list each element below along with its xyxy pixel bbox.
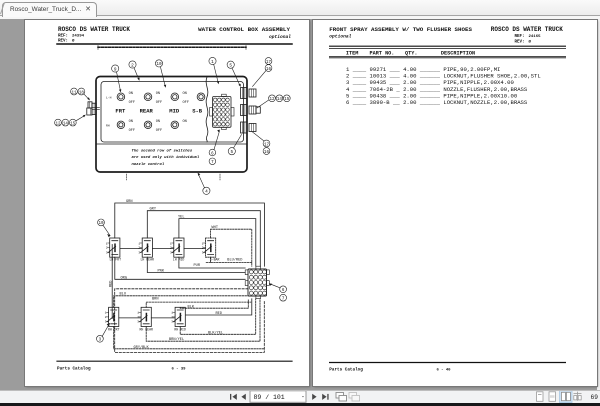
svg-text:14: 14 [63, 122, 69, 126]
switch S1 LH FRT [106, 238, 120, 257]
ON OFF labels row1 [129, 92, 189, 105]
svg-text:REV:: REV: [58, 39, 68, 43]
header underline rules [329, 56, 566, 58]
svg-text:REF:: REF: [58, 34, 68, 38]
switch S5 RH FRT [105, 307, 119, 326]
svg-text:Ø: Ø [72, 38, 75, 43]
svg-text:ON: ON [156, 120, 160, 124]
footer rule [329, 362, 566, 364]
callout 4 [198, 173, 210, 195]
svg-text:The second row of switches: The second row of switches [132, 149, 193, 154]
svg-text:BLU/RED: BLU/RED [227, 258, 242, 263]
next page button [312, 394, 316, 400]
svg-text:10: 10 [156, 62, 162, 67]
svg-text:6 - 39: 6 - 39 [172, 368, 187, 372]
two page layout icon selected [560, 391, 573, 403]
svg-text:10: 10 [98, 222, 104, 226]
right page [313, 20, 597, 386]
svg-text:14: 14 [277, 98, 283, 102]
break squiggle [206, 77, 208, 142]
panel labels FRT REAR MID S-B [115, 108, 202, 115]
svg-text:PNK: PNK [158, 269, 165, 273]
svg-text:89 / 101: 89 / 101 [254, 394, 285, 401]
callouts 11 18 left [71, 88, 90, 100]
next view icon (disabled) [349, 393, 360, 402]
svg-text:16: 16 [266, 68, 272, 72]
svg-text:WATER CONTROL BOX ASSEMBLY: WATER CONTROL BOX ASSEMBLY [198, 26, 290, 33]
wire ORG [115, 257, 245, 279]
callout 3 schematic [97, 324, 110, 343]
box separator line [97, 143, 246, 145]
svg-text:12: 12 [269, 98, 275, 102]
pdf viewer tab bar [0, 0, 600, 16]
svg-text:FRONT SPRAY ASSEMBLY W/ TWO FL: FRONT SPRAY ASSEMBLY W/ TWO FLUSHER SHOE… [329, 26, 472, 33]
knob row2 MID [171, 121, 178, 128]
wire GRN [115, 203, 265, 266]
svg-text:REV:: REV: [515, 40, 525, 44]
dark bottom strip [0, 403, 600, 406]
callouts 17 16 top right [253, 58, 272, 87]
table column headers [346, 51, 475, 57]
control box outer enclosure [96, 77, 247, 173]
page number box [250, 391, 306, 403]
svg-text:1: 1 [211, 60, 214, 65]
svg-text:OFF: OFF [129, 129, 135, 133]
knob REAR [144, 93, 152, 101]
callout 10 [155, 60, 166, 88]
svg-text:OFF: OFF [156, 129, 162, 133]
wire BLK dashed [180, 299, 248, 308]
svg-text:GRY/BLK: GRY/BLK [134, 345, 150, 350]
wire BRN dashed [146, 302, 251, 307]
svg-text:RH: RH [106, 124, 110, 127]
svg-text:5: 5 [229, 64, 232, 69]
callout 5 bottom [228, 135, 241, 156]
knob MID [171, 93, 179, 101]
knob row2 FRT [117, 121, 124, 128]
callout 9 [112, 65, 122, 93]
wire RED vertical left [111, 245, 113, 319]
svg-text:S-BAR: S-BAR [210, 258, 220, 262]
callout 7 in box [209, 158, 216, 165]
svg-text:QTY.: QTY. [405, 51, 417, 57]
wire BRN/YEL dashed [146, 299, 260, 341]
svg-text:GRY: GRY [150, 208, 157, 212]
svg-text:17: 17 [264, 143, 270, 147]
svg-text:optional: optional [269, 34, 291, 40]
callouts 12 14 15 right [257, 95, 290, 108]
svg-text:15: 15 [70, 122, 76, 126]
svg-text:OFF: OFF [183, 101, 189, 105]
svg-text:1: 1 [202, 242, 204, 245]
svg-text:BLK/YEL: BLK/YEL [208, 330, 223, 335]
single page layout icon [537, 392, 544, 402]
knob S-B hidden [197, 93, 205, 101]
wire BLU dashed [114, 296, 248, 308]
svg-text:ON: ON [156, 92, 160, 96]
connector P1 pins [249, 270, 266, 295]
wire between bottom switches [119, 317, 141, 319]
callouts 17 16 bottom right [253, 132, 270, 155]
wire YEL [179, 219, 256, 267]
footer rule [57, 360, 292, 362]
svg-text:OFF: OFF [129, 101, 135, 105]
gland right middle [241, 105, 261, 116]
svg-text:ROSCO DS WATER TRUCK: ROSCO DS WATER TRUCK [58, 26, 130, 33]
callout 6 schematic [269, 284, 287, 294]
svg-text:PART NO.: PART NO. [370, 51, 395, 57]
two page continuous icon [574, 392, 582, 401]
svg-text:FRT: FRT [115, 108, 126, 115]
svg-text:Ø: Ø [529, 39, 532, 44]
callout 5 top [227, 61, 241, 87]
left page [25, 20, 309, 386]
wire BLK/YEL dashed [180, 299, 256, 335]
wire WHT dashed [211, 229, 252, 266]
svg-text:ON: ON [183, 92, 187, 96]
wire PNK [147, 257, 245, 272]
svg-text:16: 16 [264, 151, 270, 155]
svg-text:4: 4 [205, 190, 208, 195]
svg-text:-: - [301, 394, 305, 401]
knob row2 REAR [144, 121, 151, 128]
svg-text:nozzle control: nozzle control [132, 162, 165, 167]
page header text [329, 26, 563, 44]
dash panel cut line [98, 46, 246, 48]
svg-text:are used only with individual: are used only with individual [132, 155, 200, 160]
svg-text:LH FRT: LH FRT [110, 258, 122, 262]
svg-text:BRN: BRN [152, 297, 158, 301]
page header text [58, 26, 291, 43]
svg-text:3: 3 [202, 251, 204, 254]
wire PUR [179, 257, 245, 268]
last page button [322, 394, 328, 400]
status bar [0, 390, 600, 403]
svg-text:9: 9 [114, 67, 117, 72]
switch S7 RH MID [171, 307, 185, 326]
svg-text:S-B: S-B [192, 108, 203, 115]
svg-text:15: 15 [284, 98, 290, 102]
scrollbar strip [572, 19, 600, 390]
wire RED lower [186, 299, 252, 315]
lower circuit dashed boundary [115, 289, 265, 353]
svg-text:18: 18 [79, 91, 85, 95]
svg-text:Parts Catalog: Parts Catalog [329, 368, 363, 373]
header rule [57, 43, 292, 45]
callout 6 in box [209, 130, 220, 157]
gland right top [241, 88, 257, 99]
svg-text:optional: optional [329, 34, 351, 40]
callout 7 schematic [280, 294, 287, 301]
callout 10 schematic [98, 219, 110, 237]
svg-text:24165: 24165 [529, 35, 542, 39]
svg-text:6 - 40: 6 - 40 [437, 369, 452, 373]
switch S2 LH REAR [138, 238, 152, 257]
svg-text:L-H: L-H [106, 96, 112, 99]
svg-text:BRN/YEL: BRN/YEL [169, 337, 184, 342]
control box face panel [101, 82, 244, 143]
svg-text:ITEM: ITEM [346, 51, 358, 57]
note text in box [132, 149, 200, 167]
callout 2 [129, 61, 140, 81]
svg-text:ON: ON [129, 120, 133, 124]
svg-text:ORG: ORG [121, 276, 127, 280]
svg-text:17: 17 [266, 61, 272, 65]
svg-text:DESCRIPTION: DESCRIPTION [441, 51, 475, 57]
svg-text:Parts Catalog: Parts Catalog [57, 367, 91, 372]
callouts 12 14 15 left [55, 115, 86, 127]
svg-text:ROSCO DS WATER TRUCK: ROSCO DS WATER TRUCK [491, 26, 563, 33]
connector P1 [245, 266, 269, 299]
svg-text:ON: ON [183, 120, 187, 124]
wire GRY [147, 211, 260, 267]
switch S3 LH MID [170, 238, 184, 257]
svg-text:69: 69 [591, 394, 599, 401]
continuous layout icon [549, 392, 556, 402]
switch S6 RH REAR [137, 307, 151, 326]
first page button [230, 394, 237, 400]
svg-text:5: 5 [230, 150, 233, 155]
svg-text:OFF: OFF [156, 101, 162, 105]
svg-text:REAR: REAR [140, 108, 154, 115]
svg-text:ON: ON [129, 92, 133, 96]
alignment dashes below box [127, 174, 221, 180]
table top double rule [329, 45, 566, 47]
wire between top switches [120, 248, 142, 250]
svg-text:BLU: BLU [120, 293, 126, 297]
svg-text:6 ____ 3890-B __ 2.00 ______ L: 6 ____ 3890-B __ 2.00 ______ LOCKNUT,NOZ… [346, 99, 528, 106]
prev page button [241, 394, 245, 400]
svg-text:REF:: REF: [515, 35, 525, 39]
ON OFF labels row2 [129, 120, 187, 133]
prev view icon [336, 393, 347, 402]
svg-text:RED: RED [216, 312, 222, 316]
svg-text:PUR: PUR [194, 264, 201, 268]
svg-text:WHT: WHT [212, 226, 219, 230]
svg-text:YEL: YEL [178, 216, 184, 220]
wire GRY/BLK dashed [114, 327, 265, 349]
callout 1 [209, 57, 219, 84]
svg-text:2: 2 [131, 63, 134, 68]
svg-text:MID: MID [169, 108, 180, 115]
knob FRT [117, 93, 125, 101]
connector J1 in box [210, 94, 234, 129]
wire BLU/RED dashed [206, 257, 252, 262]
gland left [87, 102, 100, 115]
gland right bottom [241, 122, 257, 133]
connector J1 pins [213, 98, 229, 126]
table rows [346, 66, 541, 106]
svg-text:BLK: BLK [188, 305, 195, 309]
svg-text:GRN: GRN [126, 200, 132, 204]
svg-text:11: 11 [71, 91, 77, 95]
svg-text:RED: RED [109, 281, 113, 287]
svg-text:24394: 24394 [72, 34, 85, 38]
switch S4 S-BAR [202, 238, 216, 257]
svg-text:12: 12 [55, 122, 61, 126]
